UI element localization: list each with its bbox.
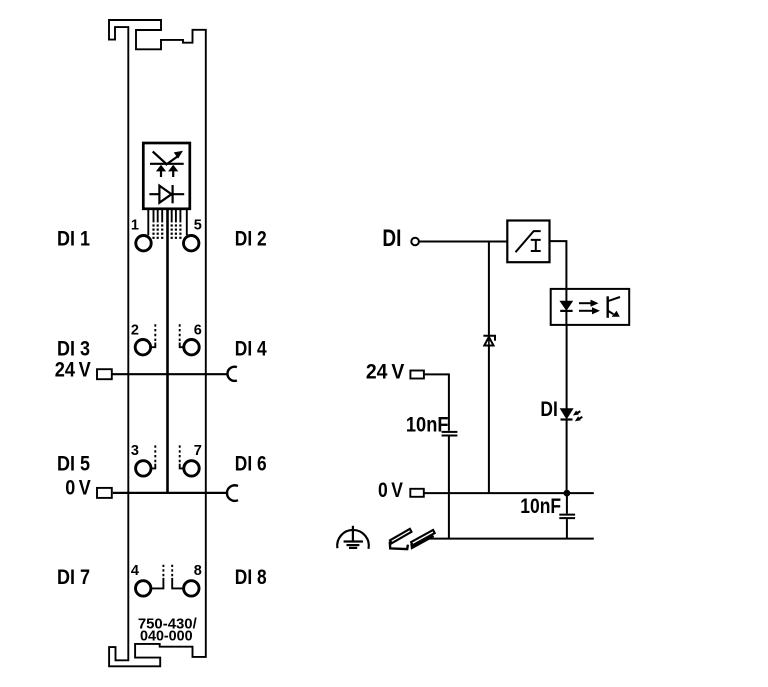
svg-text:DI 8: DI 8 [235,566,267,589]
24V power wire [112,373,227,375]
suppressor symbol bar [150,163,184,165]
svg-text:DI 2: DI 2 [235,227,267,250]
opto light arrow 1 [579,302,591,304]
wire DI to filter [419,241,508,243]
svg-text:5: 5 [194,217,202,233]
svg-text:DI: DI [540,398,557,421]
svg-text:7: 7 [194,443,202,459]
svg-text:DI 1: DI 1 [57,227,90,250]
pin comb under box [154,209,181,223]
terminal 7 [184,461,199,476]
svg-text:6: 6 [194,322,202,338]
earth symbol [352,526,354,542]
opto LED [561,302,572,310]
svg-text:DI 4: DI 4 [235,337,267,360]
up arrow B [172,171,174,177]
svg-text:24 V: 24 V [366,360,404,383]
capacitor C1 plates [442,431,458,433]
pin lead to terminal 1 [147,209,149,235]
svg-text:DI 7: DI 7 [57,566,90,589]
svg-text:10nF: 10nF [406,413,449,436]
terminal 3 [136,461,151,476]
terminal 5 [184,236,199,251]
opto LED wire through box [565,289,567,302]
input circuit symbol box U1 [143,143,190,209]
svg-text:DI 6: DI 6 [235,453,267,476]
DI input terminal [411,238,419,246]
24V bus hook [227,367,236,381]
terminal 2 [135,340,150,355]
filter box U2 [507,221,549,263]
svg-text:3: 3 [131,443,139,459]
wire node to C2 [566,493,568,513]
internal bus wire [166,209,169,493]
24V flag terminal [410,371,424,379]
LED light arrows [576,411,580,414]
filter ramp symbol [516,231,541,252]
svg-text:DI 5: DI 5 [57,453,90,476]
terminal 1 [136,236,151,251]
ground rail wire [428,538,594,540]
0V power wire [113,492,227,494]
suppressor diagonal line [153,152,168,165]
opto phototransistor [607,296,609,318]
0V flag terminal [410,489,424,497]
wire C1 to ground rail [448,437,450,539]
diode inside box [149,193,184,195]
svg-text:0 V: 0 V [65,476,91,499]
svg-text:040-000: 040-000 [140,629,193,645]
optocoupler box U3 [551,289,630,325]
DIN rail symbol [390,529,412,544]
zener branch wire [488,242,490,337]
capacitor C2 plates [559,514,575,516]
clamp hook pin 3 [152,464,155,469]
svg-text:2: 2 [131,322,139,338]
junction node [564,490,571,497]
svg-text:DI: DI [382,225,401,252]
module outline (750-430 housing profile) [109,20,206,666]
wire C2 to ground rail [566,519,568,539]
terminal 8 [184,581,199,596]
clamp hook pin 6 [180,343,183,348]
opto light arrow 2 [579,310,593,312]
up arrow A [160,171,162,177]
clamp hook pin 8 [172,578,183,589]
wire LED to 0V node [566,420,568,494]
24V wire [424,374,449,430]
0V flag terminal [97,488,112,498]
svg-text:0 V: 0 V [378,479,403,502]
svg-text:10nF: 10nF [520,495,561,518]
dotted pin columns [152,224,181,239]
svg-text:DI 3: DI 3 [57,337,90,360]
terminal 6 [184,340,199,355]
wire opto to LED V2 [566,325,568,409]
wire filter to optocoupler [550,241,567,289]
svg-text:4: 4 [131,563,139,579]
clamp hook pin 7 [180,464,183,469]
0V wire [424,492,594,494]
svg-text:8: 8 [194,563,202,579]
clamp hook pin 4 [152,578,164,589]
pin lead to terminal 5 [186,209,188,235]
svg-text:1: 1 [131,217,139,233]
suppressor bent arrow [166,156,178,165]
terminal 4 [136,581,151,596]
LED V2 [561,409,573,418]
wire zener to 0V [488,346,490,494]
clamp hook pin 2 [152,343,156,348]
svg-text:24 V: 24 V [55,359,91,382]
0V bus hook [227,485,238,501]
24V flag terminal [97,369,112,379]
filter current I symbol [531,240,541,251]
zener diode V1 [483,336,495,341]
